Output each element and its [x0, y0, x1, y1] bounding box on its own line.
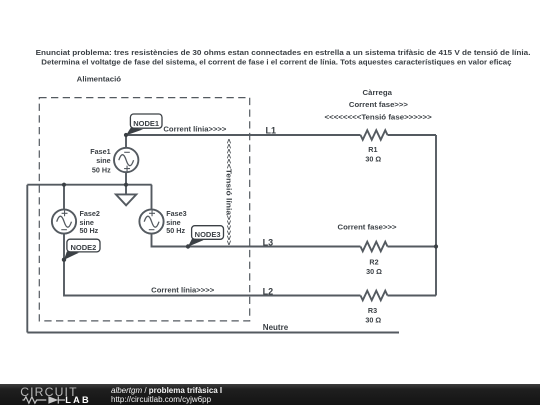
svg-text:Corrent línia>>>>: Corrent línia>>>> [151, 286, 215, 295]
svg-text:50 Hz: 50 Hz [92, 165, 111, 174]
junction right bus L3 dot [434, 244, 438, 248]
wire star point horizontal [27, 184, 151, 186]
wire L3 right segment (R2 to right bus) [388, 246, 437, 248]
svg-text:NODE3: NODE3 [195, 230, 221, 239]
resistor R1 [361, 130, 388, 140]
svg-text:NODE2: NODE2 [70, 243, 96, 252]
junction star-Fase1 dot [124, 183, 128, 187]
wire L1 right segment (R1 to right bus) [388, 134, 437, 136]
svg-text:Neutre: Neutre [263, 323, 289, 332]
wire Neutre horizontal [27, 332, 399, 334]
svg-text:Corrent línia>>>>: Corrent línia>>>> [163, 125, 227, 134]
wire Fase2 top lead [63, 185, 65, 210]
wire Fase1 bottom lead [125, 172, 127, 184]
svg-text:50 Hz: 50 Hz [166, 226, 185, 235]
wire right bus vertical [435, 135, 437, 296]
svg-text:50 Hz: 50 Hz [80, 226, 99, 235]
svg-text:R3: R3 [368, 306, 377, 315]
svg-text:Determina el voltatge de fase: Determina el voltatge de fase del sistem… [41, 60, 511, 67]
svg-text:30 Ω: 30 Ω [365, 316, 381, 325]
wire L2 left segment (Fase2 bottom to R3) [64, 234, 361, 296]
svg-text:NODE1: NODE1 [133, 119, 159, 128]
wire L3 left segment (Fase3 to R2) [152, 234, 361, 247]
enclosure Alimentació dashed box [39, 98, 249, 321]
svg-text:30 Ω: 30 Ω [365, 154, 381, 163]
svg-text:Alimentació: Alimentació [77, 74, 122, 83]
svg-text:Fase1: Fase1 [90, 147, 110, 156]
wire Fase3 top lead [151, 185, 153, 210]
wire Neutre left vertical [26, 185, 28, 333]
flag NODE1 [126, 114, 162, 135]
junction star-Fase2 dot [62, 183, 66, 187]
voltage source V1 Fase1 [114, 148, 138, 172]
flag NODE3 [188, 226, 224, 247]
svg-text:L2: L2 [263, 286, 274, 296]
svg-text:LAB: LAB [65, 394, 90, 404]
svg-text:R1: R1 [368, 145, 377, 154]
ground [116, 194, 136, 205]
wire L2 right segment (R3 to right bus) [388, 295, 437, 297]
wire Fase1 top lead [125, 135, 127, 148]
junction NODE2 dot [62, 258, 66, 262]
svg-text:Corrent fase>>>: Corrent fase>>> [338, 223, 398, 232]
junction NODE3 dot [186, 244, 190, 248]
svg-text:Enunciat problema: tres resist: Enunciat problema: tres resistències de … [36, 50, 531, 57]
svg-text:30 Ω: 30 Ω [366, 267, 382, 276]
svg-text:<<<<<<Tensió línia>>>>>>: <<<<<<Tensió línia>>>>>> [225, 139, 234, 246]
junction node1 dot [124, 133, 128, 137]
voltage source V2 Fase2 [52, 209, 76, 233]
footer bar [0, 384, 540, 405]
svg-text:Càrrega: Càrrega [363, 88, 393, 97]
svg-text:<<<<<<<<Tensió fase>>>>>>: <<<<<<<<Tensió fase>>>>>> [325, 113, 433, 122]
flag NODE2 [64, 239, 100, 260]
resistor R3 [361, 291, 388, 301]
wire L1 left segment (node1 to R1) [126, 134, 361, 136]
logo CircuitLab [18, 386, 98, 405]
resistor R2 [361, 242, 388, 252]
svg-text:R2: R2 [369, 257, 378, 266]
svg-text:sine: sine [96, 156, 110, 165]
svg-text:Corrent fase>>>: Corrent fase>>> [349, 100, 409, 109]
voltage source V3 Fase3 [139, 209, 163, 233]
svg-text:L1: L1 [266, 125, 277, 135]
ground stub [125, 185, 127, 195]
svg-text:L3: L3 [263, 237, 274, 247]
